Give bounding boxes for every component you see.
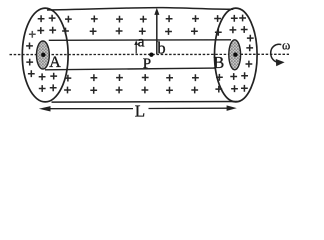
inner rod top edge <box>49 39 231 42</box>
svg-text:b: b <box>157 39 165 58</box>
cylinder bottom edge <box>52 101 238 104</box>
svg-text:ω: ω <box>282 38 290 52</box>
axis point at B (dot) <box>233 53 237 57</box>
positive charge signs (cylinder body, upper rows) <box>62 15 199 35</box>
inner rod end face A (shaded ellipse) <box>37 41 50 69</box>
svg-text:A: A <box>49 54 61 71</box>
inner rod bottom edge <box>45 68 216 70</box>
positive charge signs (left end cap) <box>26 15 57 92</box>
positive charge signs (cylinder body, lower rows) <box>64 74 199 94</box>
cylinder top edge <box>47 8 233 10</box>
inner rod end face B (shaded ellipse) <box>229 40 241 70</box>
length dimension line L (right segment with arrowhead) <box>149 105 237 111</box>
rotation direction arrow (curved arrow around axis) <box>271 44 285 66</box>
length dimension line L (left segment with arrowhead) <box>39 106 133 111</box>
rotation axis (dotted line) <box>10 53 290 55</box>
svg-text:a: a <box>138 33 145 50</box>
svg-text:P: P <box>143 56 151 72</box>
svg-text:B: B <box>213 53 224 72</box>
outer cylinder right end cap <box>215 8 258 102</box>
positive charge signs (right end cap) <box>214 15 254 93</box>
radius arrow b (vertical arrow from axis to outer surface) <box>154 8 159 54</box>
axis point at A (dot) <box>41 53 45 57</box>
point P (dot) <box>149 53 153 57</box>
radius arrow a (small arrow from axis to rod surface) <box>134 40 138 53</box>
svg-text:L: L <box>135 102 145 121</box>
outer cylinder left end cap <box>22 8 68 102</box>
